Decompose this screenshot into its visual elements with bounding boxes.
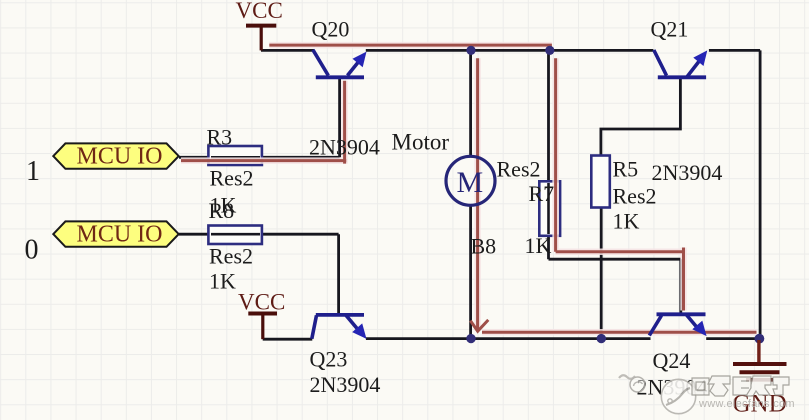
svg-text:R5: R5 <box>613 157 639 182</box>
red highlight: top rail path <box>269 44 552 47</box>
transistor Q23 (NPN, bottom-left) <box>312 315 364 339</box>
svg-text:MCU IO: MCU IO <box>77 144 163 170</box>
svg-text:R7: R7 <box>529 181 555 206</box>
red highlight: arrowhead at bottom of motor branch <box>470 320 488 331</box>
red highlight: motor branch vertical <box>476 58 479 330</box>
red path halo glow <box>181 45 757 332</box>
wire: port 0 to R8 to Q23 base corner <box>179 233 339 236</box>
svg-text:2N3904: 2N3904 <box>310 372 381 397</box>
svg-text:Q23: Q23 <box>310 347 348 372</box>
red highlight: through port1 wire and R3 <box>181 159 346 162</box>
wire: top rail right segment (Q21 emitter to right corner) <box>709 49 760 52</box>
svg-text:1: 1 <box>26 156 40 187</box>
svg-text:www.elecfans.com: www.elecfans.com <box>698 398 795 410</box>
svg-text:Res2: Res2 <box>209 244 253 269</box>
svg-text:Res2: Res2 <box>497 157 541 182</box>
power VCC top symbol <box>246 26 276 51</box>
wire: black through R3 <box>211 156 260 159</box>
svg-text:Motor: Motor <box>392 130 450 155</box>
svg-text:1K: 1K <box>525 233 552 258</box>
resistor R7 body <box>539 181 560 236</box>
svg-text:2N3904: 2N3904 <box>309 135 380 160</box>
wire: bottom rail left segment (VCC2 to Q23 collector) <box>263 338 313 341</box>
svg-text:M: M <box>457 166 484 199</box>
wire: motor top lead <box>469 50 472 155</box>
wire: bottom rail right segment (Q24 emitter to GND corner) <box>706 337 760 340</box>
wire: top rail middle segment (Q20 emitter to Q21 collector) <box>366 49 654 52</box>
watermark big logo circle <box>661 379 695 413</box>
svg-text:0: 0 <box>25 235 39 266</box>
wire: bottom rail middle segment (Q23 emitter to Q24 collector) <box>366 337 651 340</box>
svg-text:VCC: VCC <box>236 0 283 23</box>
power VCC bottom symbol <box>248 314 277 340</box>
svg-text:1K: 1K <box>209 268 236 293</box>
svg-text:Q20: Q20 <box>312 17 350 42</box>
transistor Q21 (NPN, top-right) <box>654 50 706 77</box>
wire: R5 bottom lead down to bottom rail <box>600 207 603 339</box>
junction dot: bottom rail / GND <box>755 334 765 344</box>
resistor R3 body <box>208 146 262 165</box>
wire: R7 branch from top rail through R7 down to corner <box>547 50 550 259</box>
wire: black through R8 <box>211 233 260 236</box>
svg-text:Res2: Res2 <box>210 166 254 191</box>
red highlight: bottom rail path to GND <box>482 331 757 334</box>
wire: horizontal to Q24 base <box>549 258 681 261</box>
wire: motor bottom lead (node B8) <box>469 206 472 339</box>
transistor Q24 (NPN, bottom-right) <box>649 314 705 335</box>
wire: top rail left segment (VCC to Q20 collector) <box>261 49 314 52</box>
red highlight: Q20 base vertical <box>343 81 346 164</box>
svg-text:MCU IO: MCU IO <box>77 222 163 248</box>
svg-text:2N3904: 2N3904 <box>652 160 723 185</box>
svg-text:B8: B8 <box>471 234 497 259</box>
svg-text:R8: R8 <box>209 198 235 223</box>
junction dot: top rail / motor <box>466 46 475 55</box>
transistor Q20 (NPN, top-left) <box>313 50 364 78</box>
wire: Q24 base lead vertical <box>679 259 682 313</box>
wire: port 1 to R3 to Q20 base corner <box>179 156 340 159</box>
red highlight: R7 branch vertical <box>554 58 557 252</box>
red highlight: horizontal toward Q24 base <box>556 250 684 253</box>
motor M1 circle <box>446 156 495 205</box>
wire: Q23 base lead vertical <box>337 234 340 313</box>
svg-text:R3: R3 <box>207 125 233 150</box>
port MCU IO 0 <box>53 221 178 246</box>
wire: Q21 base lead L-shape to R5 top <box>601 79 681 156</box>
svg-text:Q24: Q24 <box>653 348 691 373</box>
svg-text:Q21: Q21 <box>651 17 689 42</box>
svg-text:Res2: Res2 <box>613 184 657 209</box>
junction dot: top rail / R7 branch <box>545 46 554 55</box>
wire: Q20 base lead vertical <box>338 79 341 157</box>
port MCU IO 1 <box>53 143 178 168</box>
svg-text:VCC: VCC <box>238 289 285 314</box>
junction dot: bottom rail / R5 lead <box>597 334 606 343</box>
ground GND symbol <box>733 340 787 380</box>
watermark small squiggle and circle <box>619 375 645 392</box>
wire: right vertical (Q21 emitter rail down to bottom rail) <box>759 50 762 338</box>
svg-text:1K: 1K <box>613 209 640 234</box>
watermark glyph blobs (site name) <box>692 376 789 396</box>
red highlight: Q24 base vertical with corner overshoot <box>682 248 685 311</box>
resistor R5 body <box>591 156 610 208</box>
resistor R8 body <box>208 226 262 245</box>
junction dot: bottom rail / motor B8 <box>466 334 475 343</box>
wire: black through R7 <box>547 183 550 234</box>
